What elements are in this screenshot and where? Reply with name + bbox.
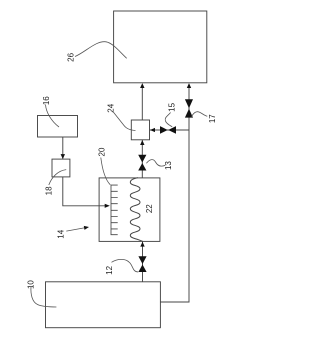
leader for 16 (46, 105, 60, 128)
wire box24 right to vertical line, y=130 (150, 129, 189, 131)
valve 15 (160, 126, 176, 134)
wire vertical right x=189 from box26 to corner (160, 87, 189, 302)
leader for 10 (31, 287, 56, 308)
wire HX bottom to box10 top (142, 241, 144, 281)
svg-text:14: 14 (57, 229, 66, 238)
svg-text:26: 26 (66, 52, 75, 61)
wavy line 22 inside heat exchanger (130, 178, 142, 242)
box 18 (52, 159, 70, 177)
wire box16 bottom to box18 top (62, 137, 64, 159)
arrowhead up into box 26 at x=189 (187, 83, 191, 88)
box 16 (38, 116, 78, 138)
valve 17 (185, 99, 193, 117)
arrowhead down into box 18 (61, 154, 65, 159)
svg-text:13: 13 (164, 161, 173, 170)
box 10 (46, 282, 161, 328)
arrowhead left into box 24 (150, 128, 155, 132)
valve 12 (138, 256, 146, 272)
leader for 12 (112, 259, 139, 272)
box 26 (114, 11, 207, 83)
arrowhead right into comb (105, 204, 110, 208)
valve 13 (138, 155, 146, 171)
svg-text:22: 22 (145, 204, 154, 213)
leader for 13 (146, 160, 165, 167)
comb element 20 inside heat exchanger (111, 185, 118, 235)
leader arrow for 14 (66, 228, 85, 232)
arrowhead up into HX bottom (140, 242, 144, 247)
arrowhead up into box 26 at x=142 (140, 83, 144, 88)
svg-text:18: 18 (45, 186, 54, 195)
svg-text:15: 15 (168, 102, 177, 111)
svg-text:16: 16 (42, 96, 51, 105)
leader for 20 (101, 158, 111, 185)
leader for 26 (75, 42, 127, 59)
box 24 (131, 120, 149, 140)
svg-text:20: 20 (98, 147, 107, 156)
leader for 24 (113, 111, 136, 131)
svg-text:12: 12 (105, 265, 114, 274)
wire box18 bottom L-shape into HX comb (63, 177, 105, 206)
svg-text:17: 17 (208, 114, 217, 123)
leader for 17 (192, 112, 208, 117)
box 14 heat exchanger (99, 178, 160, 242)
svg-text:24: 24 (107, 103, 116, 112)
leader for 18 (49, 170, 66, 185)
arrowhead up into box 24 (140, 140, 144, 145)
wire box24 top to box26 bottom (141, 87, 143, 120)
wire box24 bottom to HX top (141, 140, 143, 178)
leader for 15 (165, 113, 172, 127)
